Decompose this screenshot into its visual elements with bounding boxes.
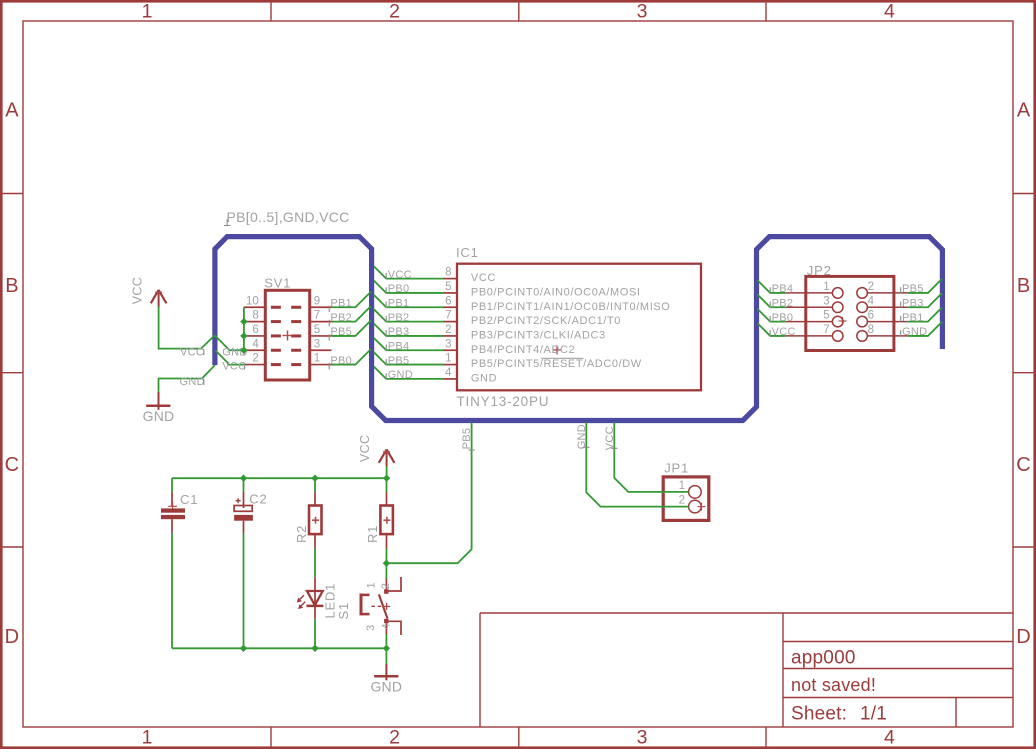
svg-text:GND: GND [370,679,402,695]
resistor R1 [386,478,388,492]
svg-text:R1: R1 [365,525,380,543]
svg-text:PB4/PCINT4/ADC2: PB4/PCINT4/ADC2 [471,344,575,356]
svg-text:not saved!: not saved! [791,675,876,695]
svg-text:VCC: VCC [222,360,246,372]
svg-text:3: 3 [637,1,648,23]
junction [240,645,247,652]
svg-text:GND: GND [180,376,205,388]
svg-text:GND: GND [143,408,175,424]
svg-text:PB5: PB5 [330,326,352,338]
svg-text:PB0/PCINT0/AIN0/OC0A/MOSI: PB0/PCINT0/AIN0/OC0A/MOSI [471,287,641,299]
svg-text:GND: GND [902,326,927,338]
svg-text:PB5: PB5 [388,355,410,367]
svg-text:3: 3 [314,338,320,350]
wire PB5 from JP2 pin 2 to bus [908,279,942,293]
svg-text:PB2: PB2 [388,312,410,324]
svg-text:7: 7 [823,324,829,336]
svg-text:10: 10 [246,295,259,307]
svg-text:PB4: PB4 [772,283,794,295]
junction [240,475,247,482]
wire GND from bus end [159,365,215,392]
svg-text:D: D [5,626,19,648]
svg-text:PB0: PB0 [388,283,410,295]
JP2 pin 8 (GND) [867,335,907,337]
svg-text:PB[0..5],GND,VCC: PB[0..5],GND,VCC [227,209,350,225]
bus PB[0..5],GND,VCC [215,237,943,421]
svg-text:PB3: PB3 [902,297,924,309]
svg-text:4: 4 [868,295,875,307]
svg-text:7: 7 [314,310,320,322]
svg-text:VCC: VCC [604,426,616,450]
svg-text:PB2: PB2 [330,312,352,324]
LED LED1 [314,577,316,618]
wire VCC from bus to IC1 pin 8 [374,266,444,278]
svg-text:5: 5 [314,324,320,336]
S1 pin 4 bracket [389,621,402,635]
S1 pin 2 bracket [387,577,401,591]
svg-text:PB2: PB2 [772,297,794,309]
svg-text:2: 2 [380,583,392,589]
SV1 pin 10 [244,306,265,308]
svg-text:VCC: VCC [180,346,204,358]
svg-text:PB5: PB5 [461,428,473,450]
svg-text:Sheet:: Sheet: [791,704,847,725]
svg-text:6: 6 [868,310,874,322]
wire to ground [385,648,387,664]
IC1 pin 5 (PB0) [444,292,458,294]
supply symbol VCC (at R1) [386,449,388,466]
svg-text:PB0: PB0 [772,312,794,324]
title block [480,612,1013,614]
JP2 pin 6 (PB1) [867,321,907,323]
SV1 pin 4 [244,349,265,351]
IC1 origin cross [553,349,562,351]
svg-text:PB5/PCINT5/RESET/ADC0/DW: PB5/PCINT5/RESET/ADC0/DW [471,358,642,370]
S1 contact (top) [384,589,388,594]
svg-text:PB3: PB3 [388,326,410,338]
wire PB5 from bus to IC1 pin 1 [374,352,444,364]
S1 lever [379,594,388,618]
wire PB2 from SV1 to bus [332,306,371,322]
IC1 pin 4 (GND) [444,378,458,380]
S1 pin 3 [385,623,387,634]
S1 actuator [360,594,363,616]
svg-text:3: 3 [365,625,377,631]
svg-text:7: 7 [445,310,451,322]
junction [311,475,318,482]
wire PB1 from SV1 to bus [332,292,371,308]
JP2 pin 5 (PB0) [786,321,833,323]
S1 contact (bottom) [384,619,388,623]
SV1 pin 8 [244,321,265,323]
capacitor C2 [243,478,245,492]
svg-text:S1: S1 [336,602,351,620]
JP2 pin 3 (PB2) [786,306,833,308]
svg-text:TINY13-20PU: TINY13-20PU [457,394,550,409]
svg-text:2: 2 [252,353,258,365]
svg-text:PB3/PCINT3/CLKI/ADC3: PB3/PCINT3/CLKI/ADC3 [471,330,606,342]
svg-text:VCC: VCC [471,272,496,284]
svg-text:C2: C2 [249,491,267,506]
svg-text:1: 1 [314,353,320,365]
junction [383,645,390,652]
SV1 pin 7 [310,321,332,323]
svg-text:5: 5 [445,281,451,293]
wire GND from bus to IC1 pin 4 [374,367,444,379]
svg-text:VCC: VCC [388,269,412,281]
IC1 pin 7 (PB2) [444,321,458,323]
svg-text:2: 2 [389,1,400,23]
svg-text:C: C [5,454,19,476]
svg-text:8: 8 [445,267,451,279]
svg-text:1: 1 [142,727,153,749]
svg-text:PB1: PB1 [902,312,924,324]
JP2 pin 7 (VCC) [786,335,833,337]
wire GND from JP2 pin 8 to bus [908,322,942,336]
svg-text:6: 6 [445,295,451,307]
IC1 pin 6 (PB1) [444,306,458,308]
svg-text:SV1: SV1 [264,275,291,290]
svg-text:PB5: PB5 [902,283,924,295]
wire PB3 from bus to IC1 pin 2 [374,324,444,336]
wire PB5 from SV1 to bus [332,320,371,336]
svg-text:GND: GND [471,373,497,385]
svg-text:GND: GND [576,424,588,449]
svg-text:3: 3 [637,727,648,749]
wire VCC top rail [172,477,387,479]
SV1 pin 9 [310,306,332,308]
svg-text:PB2/PCINT2/SCK/ADC1/T0: PB2/PCINT2/SCK/ADC1/T0 [471,315,621,327]
svg-text:B: B [5,275,18,297]
svg-text:C1: C1 [180,492,198,507]
svg-text:A: A [5,100,19,122]
junction [383,560,390,567]
ground symbol GND (left) [158,392,160,410]
ground symbol GND (bottom) [385,664,387,680]
svg-text:5: 5 [823,310,829,322]
wire VCC from bus to JP2 pin 7 [758,323,786,336]
svg-text:VCC: VCC [358,435,372,462]
capacitor C1 [171,478,173,492]
svg-text:4: 4 [381,623,393,629]
SV1 pin 1 [310,364,332,366]
resistor R2 [314,478,316,492]
wire VCC bus ripper to SV1 pin 2 [215,350,244,364]
wire PB1 from bus to IC1 pin 6 [374,295,444,307]
svg-text:B: B [1017,275,1030,297]
wire PB2 from bus to IC1 pin 7 [374,309,444,321]
IC1 pin 2 (PB3) [444,335,458,337]
svg-text:8: 8 [868,324,874,336]
wire PB1 from JP2 pin 6 to bus [908,307,942,321]
svg-text:4: 4 [884,727,895,749]
SV1 pin 2 [244,364,265,366]
wire PB2 from bus to JP2 pin 3 [758,295,786,308]
junction [240,347,247,354]
svg-text:VCC: VCC [772,326,796,338]
IC1 pin 1 (PB5) [444,364,458,366]
wire GND bottom rail [172,647,386,649]
svg-text:D: D [1016,626,1030,648]
svg-text:3: 3 [445,338,451,350]
junction [311,645,318,652]
svg-text:2: 2 [868,281,874,293]
svg-text:PB0: PB0 [330,355,352,367]
junction [240,332,247,339]
svg-text:4: 4 [445,367,452,379]
svg-text:4: 4 [252,338,259,350]
svg-text:PB4: PB4 [388,340,410,352]
SV1 pin 6 [244,335,265,337]
IC1 pin 8 (VCC) [444,278,458,280]
svg-text:2: 2 [679,495,685,507]
svg-text:3: 3 [823,295,829,307]
switch S1 [385,563,387,578]
svg-text:C: C [1016,454,1030,476]
svg-text:GND: GND [388,369,413,381]
IC1 pin 3 (PB4) [444,349,458,351]
junction [240,318,247,325]
svg-text:PB1/PCINT1/AIN1/OC0B/INT0/MISO: PB1/PCINT1/AIN1/OC0B/INT0/MISO [471,301,671,313]
svg-text:1: 1 [366,582,378,588]
wire PB4 from bus to IC1 pin 3 [374,338,444,350]
wire GND from bus to JP1 pin 2 [586,422,688,506]
svg-text:6: 6 [252,324,258,336]
svg-text:1: 1 [823,281,829,293]
wire PB0 from SV1 to bus [332,349,371,365]
svg-text:1: 1 [679,480,685,492]
wire PB5 from bus to R1/S1 node [386,422,471,563]
SV1 pin 5 [310,335,332,337]
svg-text:9: 9 [314,295,320,307]
svg-text:1: 1 [445,353,451,365]
junction [383,475,390,482]
SV1 pin 3 [310,349,332,351]
svg-text:8: 8 [252,310,258,322]
wire VCC from bus to JP1 pin 1 [614,422,688,492]
svg-text:4: 4 [884,1,895,23]
wire PB3 from JP2 pin 4 to bus [908,293,942,307]
JP2 pin 4 (PB3) [867,306,907,308]
svg-text:VCC: VCC [131,277,145,304]
svg-text:PB1: PB1 [330,297,352,309]
supply symbol VCC (left) [158,290,160,307]
wire PB4 from bus to JP2 pin 1 [758,280,786,293]
wire VCC arrow to rail [386,466,388,478]
svg-text:PB1: PB1 [388,297,410,309]
wire VCC from supply to bus ripper [159,307,216,349]
JP2 pin 1 (PB4) [786,292,833,294]
wire GND joining SV1 pins 10,8,6,4 [243,307,245,350]
JP2 pin 2 (PB5) [867,292,907,294]
svg-text:2: 2 [445,324,451,336]
svg-text:app000: app000 [791,648,856,669]
svg-text:1: 1 [142,1,153,23]
wire PB0 from bus to IC1 pin 5 [374,281,444,293]
svg-text:IC1: IC1 [456,245,479,260]
wire GND bus ripper to SV1 [215,336,244,350]
svg-text:A: A [1017,100,1031,122]
svg-text:JP1: JP1 [664,461,689,476]
svg-text:1/1: 1/1 [860,704,887,725]
wire PB0 from bus to JP2 pin 5 [758,309,786,322]
svg-text:R2: R2 [294,525,309,543]
svg-text:2: 2 [389,727,400,749]
